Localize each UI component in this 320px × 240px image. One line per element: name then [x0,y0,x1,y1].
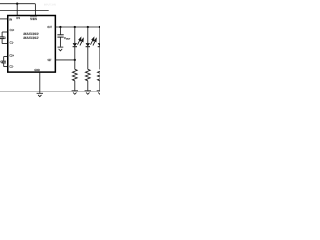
LED branch 3 [97,27,109,94]
wire to ground [99,81,101,91]
bottom page rule [0,90,100,92]
wire: input rail line B [0,10,49,12]
svg-text:GND: GND [34,68,40,72]
wire cathode [74,47,76,69]
ground (COUT) [58,47,64,51]
svg-text:IN: IN [9,18,12,22]
wire: GND pin stub [39,73,41,93]
wire anode [74,27,76,43]
wire to ground [74,81,76,91]
svg-text:MAX1912: MAX1912 [23,36,38,40]
node: junction dot on line A [16,3,18,5]
wire: OUT rail [55,26,100,28]
node: SET junction on branch 1 [74,59,76,61]
wire cathode [87,47,89,69]
ground R3 [97,91,103,95]
ground (GND pin) [37,93,43,96]
capacitor C2 [2,57,8,67]
svg-text:SET: SET [48,58,52,62]
svg-text:OUT: OUT [47,25,52,29]
svg-text:INPUT 3.6V: INPUT 3.6V [44,3,56,6]
node: COUT tap [59,26,61,28]
node: LED branch 3 tap [99,26,101,28]
resistor R1 [72,69,77,81]
wire anode [87,27,89,43]
svg-text:C1+: C1+ [10,28,15,32]
wire: top supply line A to SHDN [0,4,35,16]
wire: stub from line A down to IN pin [16,4,18,16]
svg-text:C1-: C1- [10,41,14,45]
node: LED branch 1 tap [74,26,76,28]
LED D3 [98,38,109,47]
wire to ground [87,81,89,91]
ground R1 [72,91,78,95]
LED branch 2 [85,27,97,94]
node: LED branch 2 tap [87,26,89,28]
svg-text:C2+: C2+ [9,54,14,58]
svg-text:SHDN: SHDN [30,17,37,21]
background [0,0,100,100]
wire anode [99,27,101,43]
wire: SET to LED1 cathode [55,59,74,61]
resistor R3 [98,69,103,81]
ground R2 [85,91,91,95]
capacitor COUT [57,27,63,47]
LED D2 [86,38,97,47]
LED branch 1 [72,27,84,94]
capacitor C1 [0,32,8,44]
wire cathode [99,47,101,69]
svg-text:IN: IN [16,16,19,20]
resistor R2 [85,69,90,81]
LED D1 [73,38,84,47]
svg-text:C2-: C2- [9,65,13,69]
wire: IN left pin wire [0,18,8,20]
IC U1 MAX1910/MAX1912 body [8,16,56,73]
